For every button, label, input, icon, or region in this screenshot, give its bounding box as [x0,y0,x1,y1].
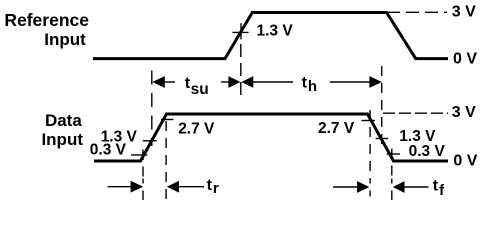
tick 1.3V crossing on data rising edge [143,140,157,142]
tr left tail line [108,186,131,188]
dashed 3V level line (data) [383,112,448,114]
dashed line reference 1.3V (tsu end / th start) [240,44,242,95]
svg-text:0.3 V: 0.3 V [90,142,127,159]
svg-text:0 V: 0 V [453,51,477,68]
tsu right tail line [221,81,230,83]
tick 1.3V crossing on reference rising edge (horizontal) [232,31,248,33]
tf right tail line [404,186,429,188]
svg-text:Input: Input [41,130,83,149]
dashed line data rise 0.3V [142,150,144,201]
svg-text:tr: tr [207,177,219,197]
tsu left tail line [164,81,176,83]
tf left arrowhead [357,181,369,193]
tr right arrowhead [167,181,179,193]
svg-text:3 V: 3 V [452,104,476,121]
th left arrowhead [241,76,253,88]
tick 2.7V crossing on data rising edge [161,119,174,121]
tr right tail line [179,186,205,188]
tick 1.3V crossing on data falling edge [376,138,388,140]
svg-text:Input: Input [44,30,86,49]
tick 0.3V crossing on data rising edge [131,154,147,156]
data input waveform [94,114,448,161]
svg-text:th: th [302,75,318,96]
dashed line data fall 2.7V [369,110,371,197]
svg-text:2.7 V: 2.7 V [318,120,355,137]
svg-text:3 V: 3 V [452,4,476,21]
tf left tail line [333,186,358,188]
svg-text:Reference: Reference [4,10,89,30]
tick 1.3V crossing on reference rising edge (vertical) [240,23,242,39]
tick 0.3V crossing on data falling edge [387,153,400,155]
tsu left arrowhead [152,76,165,88]
th right tail line [330,81,370,83]
dashed line data rise 2.7V [165,121,167,200]
tsu right arrowhead [228,76,240,88]
svg-text:tf: tf [433,178,445,200]
svg-text:0 V: 0 V [453,153,477,170]
dashed 3V level line (reference) [387,11,447,13]
dashed line data fall 0.3V [391,149,393,201]
dashed line data rise 1.3V (tsu start) [151,71,153,147]
tr left arrowhead [131,181,144,193]
svg-text:0.3 V: 0.3 V [409,143,446,160]
svg-text:Data: Data [45,111,82,130]
reference input waveform [93,13,448,59]
th right arrowhead [369,76,382,88]
tick 2.7V crossing on data falling edge [362,120,376,122]
dashed line data fall 1.3V (th end) [381,66,383,144]
tf right arrowhead [393,181,405,193]
svg-text:tsu: tsu [185,75,209,98]
svg-text:2.7 V: 2.7 V [178,121,215,138]
svg-text:1.3 V: 1.3 V [257,23,294,40]
th left tail line [253,81,294,83]
